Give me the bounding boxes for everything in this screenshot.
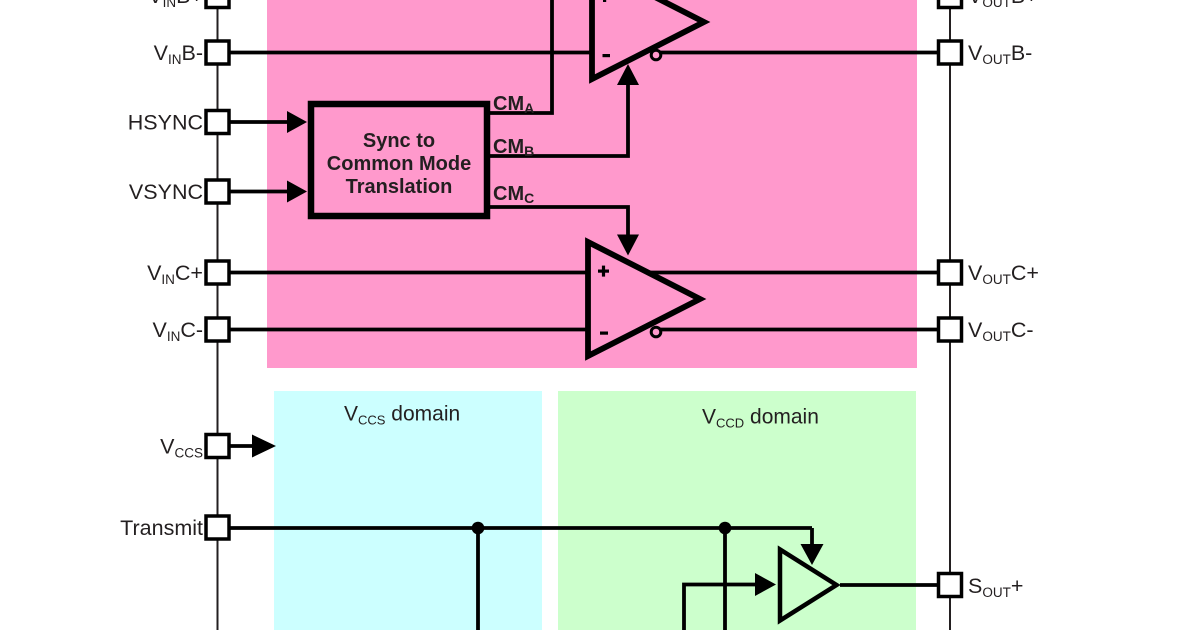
node VoutC+ label [968,261,1039,287]
svg-text:Translation: Translation [346,176,453,198]
svg-text:VOUTB+: VOUTB+ [968,0,1038,10]
svg-text:HSYNC: HSYNC [128,111,203,135]
svg-text:VINB-: VINB- [154,41,203,67]
wire CM_B with arrowhead into op-amp B [490,64,639,156]
pin VoutB- [939,41,962,64]
node VoutB- label [968,41,1032,67]
wire VinC+ [228,271,588,275]
node VSYNC label [129,180,203,204]
pin VoutC- [939,318,962,341]
junction dot 2 [719,522,732,535]
node VinB+ label (cut) [148,0,203,10]
wire HSYNC with arrowhead [228,111,307,133]
pin Sout+ [939,574,962,597]
node Vccs label [160,435,203,461]
wire left pin chain [217,0,219,630]
wire VinB- [228,51,592,55]
node VCCS domain region [274,391,542,630]
wire VoutC- [660,328,950,332]
node VinC+ label [147,261,203,287]
svg-text:SOUT+: SOUT+ [968,574,1023,600]
wire transmit into buffer top with arrowhead [801,528,824,565]
op-amp B (partially cut at top) [592,0,704,79]
svg-text:VOUTB-: VOUTB- [968,41,1032,67]
buffer amp S driver [780,550,837,621]
pin HSYNC [206,111,229,134]
svg-text:Common Mode: Common Mode [327,153,471,175]
node VoutB+ label (cut) [968,0,1038,10]
node CM_B label [493,136,534,159]
wire CM_C with arrowhead into op-amp C [490,207,639,256]
node VCCS domain label [344,403,460,428]
svg-text:Transmit: Transmit [120,516,203,540]
svg-text:VINB+: VINB+ [148,0,203,10]
wire drop from junction 1 [476,528,480,630]
svg-text:VOUTC-: VOUTC- [968,318,1034,344]
pin Vccs [206,435,229,458]
wire VSYNC with arrowhead [228,181,307,203]
pin VinC+ [206,261,229,284]
node VCCD domain label [702,406,819,431]
wire CM_A [490,0,552,113]
svg-text:VINC-: VINC- [152,318,203,344]
pin VoutB+ (cut at top) [939,0,962,8]
wire VoutB- [658,51,950,55]
wire Sout+ [840,583,950,587]
wire VoutC+ [649,271,950,275]
pin VinC- [206,318,229,341]
wire Transmit horizontal [228,526,812,530]
sync-to-common-mode box U1 [311,104,487,216]
node Transmit label [120,516,203,540]
junction dot 1 [472,522,485,535]
node CM_A label [493,93,534,116]
wire VinC- [228,328,588,332]
pin Transmit [206,516,229,539]
svg-text:Sync to: Sync to [363,130,435,152]
node CM_C label [493,183,534,206]
node VinC- label [152,318,203,344]
svg-text:VSYNC: VSYNC [129,180,203,204]
node VinB- label [154,41,203,67]
pin VinB+ (cut at top) [206,0,229,8]
op-amp C [588,242,700,356]
node Sout+ label [968,574,1023,600]
node VoutC- label [968,318,1034,344]
svg-text:VOUTC+: VOUTC+ [968,261,1039,287]
svg-text:VINC+: VINC+ [147,261,203,287]
node HSYNC label [128,111,203,135]
pin VoutC+ [939,261,962,284]
wire Vccs arrow [228,435,276,458]
svg-text:VCCS: VCCS [160,435,203,461]
wire drop from junction 2 [723,528,727,630]
node VCCD domain region [558,391,916,630]
pin VinB- [206,41,229,64]
wire buffer input with arrowhead [684,573,776,630]
wire right pin chain [949,0,951,630]
analog pink region [267,0,917,368]
pin VSYNC [206,180,229,203]
